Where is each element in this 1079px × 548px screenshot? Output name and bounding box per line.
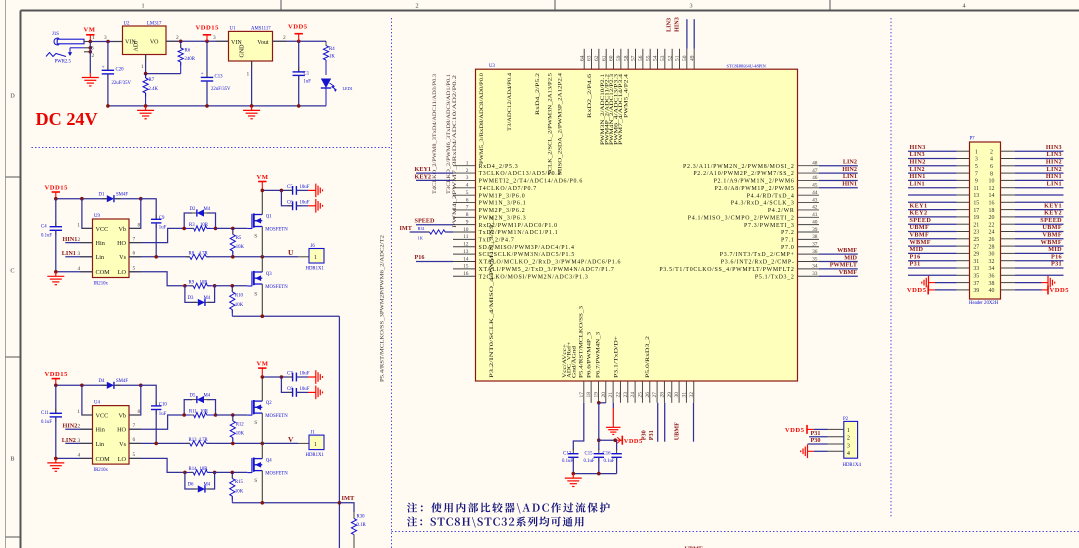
svg-text:40: 40	[812, 219, 818, 225]
MCU top pins 64-49	[579, 49, 695, 69]
net label P31	[648, 430, 655, 440]
svg-text:10uF: 10uF	[300, 200, 310, 205]
power flag VM driver U4	[257, 361, 269, 377]
svg-text:HIN1: HIN1	[842, 181, 857, 188]
wire UBMF pin 32	[693, 403, 695, 442]
svg-text:P16: P16	[910, 253, 921, 260]
svg-text:WBMF: WBMF	[1041, 239, 1062, 246]
wire source Q4 to rail	[261, 471, 263, 503]
svg-text:P2: P2	[843, 417, 849, 422]
svg-text:R13: R13	[189, 438, 198, 443]
svg-text:51: 51	[675, 55, 681, 61]
svg-text:61: 61	[601, 55, 607, 61]
net label P30	[640, 430, 647, 440]
svg-text:C1: C1	[304, 72, 310, 77]
diode D6 M4	[185, 472, 215, 492]
svg-text:P3.6/INT2/RxD_2/CMP-: P3.6/INT2/RxD_2/CMP-	[721, 260, 795, 266]
svg-text:WBMF: WBMF	[837, 247, 857, 254]
svg-text:TxD_2/P4.7: TxD_2/P4.7	[479, 238, 515, 244]
power flag VDD5 P2 pin 1	[785, 425, 828, 434]
wire COM pin 4 U4	[54, 453, 93, 461]
resistor R11 10R	[182, 410, 217, 418]
capacitor C7 10uF	[261, 372, 317, 382]
svg-text:T4CLKO_2/PWM8_3TxD4/ADC11/AD3/: T4CLKO_2/PWM8_3TxD4/ADC11/AD3/P0.3	[432, 74, 438, 194]
diode D5 M4	[184, 393, 215, 415]
svg-text:27: 27	[973, 244, 979, 250]
svg-text:R7: R7	[149, 78, 155, 83]
wire Vb pin 8 U4	[129, 385, 141, 415]
svg-text:Q2: Q2	[266, 401, 272, 406]
svg-text:GND: GND	[240, 44, 246, 58]
MCU left pins 1-16	[453, 161, 621, 281]
svg-text:26: 26	[989, 237, 995, 243]
svg-text:PWMFLT: PWMFLT	[830, 262, 858, 269]
svg-text:10R: 10R	[200, 223, 209, 228]
svg-text:D3: D3	[188, 296, 194, 301]
MCU bottom pins 17-32	[579, 381, 695, 403]
P7 row pins 7-8 net LIN2	[908, 166, 1064, 178]
svg-text:LIN2: LIN2	[910, 166, 926, 173]
svg-text:J6: J6	[311, 244, 316, 249]
svg-text:HIN2: HIN2	[1046, 159, 1062, 166]
resistor R30 0.1R	[351, 512, 366, 548]
svg-text:1uF: 1uF	[159, 226, 167, 231]
svg-text:Vs: Vs	[119, 441, 126, 448]
svg-text:T3/ADC12/AD4/P0.4: T3/ADC12/AD4/P0.4	[507, 73, 513, 131]
svg-text:U2: U2	[124, 22, 130, 27]
svg-text:C15: C15	[585, 451, 594, 456]
svg-text:P3.7/INT3/TxD_2/CMP+: P3.7/INT3/TxD_2/CMP+	[720, 252, 795, 258]
wire source Q3 to rail	[261, 284, 263, 316]
svg-text:47: 47	[812, 168, 818, 174]
power flag VM driver U9	[257, 174, 269, 190]
svg-text:21: 21	[608, 392, 614, 398]
svg-text:10uF: 10uF	[300, 372, 310, 377]
svg-text:39: 39	[812, 227, 818, 233]
P7 row pins 35-36	[908, 274, 1064, 280]
svg-text:20: 20	[601, 392, 607, 398]
net label U phase output	[288, 248, 294, 257]
regulator U2 LM317	[123, 22, 167, 55]
net label IMT shunt node	[342, 495, 356, 502]
svg-text:P5.4/RST/MCLKO/SS_3PWM2P/PWM6_: P5.4/RST/MCLKO/SS_3PWM2P/PWM6_2/ADC2/T2	[380, 235, 386, 382]
svg-text:MID: MID	[1048, 246, 1062, 253]
connector P7 Header 20X2H	[969, 137, 1001, 306]
P7 row pins 1-2 net HIN3	[908, 144, 1064, 156]
net label P16 pin 14	[415, 254, 454, 262]
svg-text:VBMF: VBMF	[910, 232, 930, 239]
svg-text:12: 12	[989, 186, 995, 192]
svg-text:AMS1117: AMS1117	[251, 27, 271, 32]
svg-text:RxD2_2/P4.6: RxD2_2/P4.6	[587, 74, 593, 118]
svg-text:STC8H8K64U-48PIN: STC8H8K64U-48PIN	[727, 63, 767, 68]
svg-text:49: 49	[689, 55, 695, 61]
LED1	[321, 79, 353, 106]
wire shunt bus vertical	[338, 316, 342, 548]
svg-text:6: 6	[466, 197, 469, 203]
resistor R6 240R	[178, 41, 196, 73]
svg-text:HIN2: HIN2	[842, 166, 857, 173]
wire COM pin 4 U9	[54, 266, 93, 274]
svg-text:28: 28	[989, 244, 995, 250]
power flag VDD15 driver U4	[45, 371, 69, 385]
svg-text:HDR1X4: HDR1X4	[843, 463, 862, 468]
svg-text:Q3: Q3	[266, 272, 272, 277]
svg-text:7: 7	[975, 171, 978, 177]
wire P31 pin 28	[664, 403, 666, 442]
MCU right pins 48-33	[659, 161, 819, 281]
svg-text:HDR1X1: HDR1X1	[306, 453, 325, 458]
svg-text:PWM2P_3/P6.2: PWM2P_3/P6.2	[479, 208, 526, 214]
resistor R15 10K	[230, 472, 244, 502]
svg-text:VDD5: VDD5	[1050, 287, 1070, 294]
transistor Q4 MOSFETN low side	[247, 458, 288, 485]
svg-text:42: 42	[812, 205, 818, 211]
net label HIN2 MCU right	[819, 166, 858, 173]
MCU rotated pin names top interior	[479, 73, 630, 378]
svg-text:HO: HO	[117, 240, 126, 247]
svg-text:6: 6	[133, 437, 136, 443]
svg-text:LIN1: LIN1	[843, 173, 857, 180]
P7 row pins 17-18 net KEY1	[908, 202, 1064, 214]
svg-text:SM4F: SM4F	[116, 193, 128, 198]
svg-text:2: 2	[92, 53, 95, 59]
ground decoupling rail	[565, 474, 582, 487]
svg-text:64: 64	[579, 55, 585, 61]
net label V phase output	[288, 435, 294, 444]
svg-text:12: 12	[463, 242, 469, 248]
svg-text:J1S: J1S	[52, 32, 59, 37]
power flag VM	[84, 27, 96, 42]
svg-text:C20: C20	[116, 68, 125, 73]
svg-text:KEY1: KEY1	[415, 166, 432, 173]
svg-text:DC 24V: DC 24V	[36, 109, 98, 129]
wire VDD5 node MCU	[597, 438, 617, 442]
ground jack	[82, 73, 99, 86]
svg-text:39: 39	[973, 288, 979, 294]
svg-text:R11: R11	[189, 410, 197, 415]
svg-text:PWM1P_3/P6.0: PWM1P_3/P6.0	[479, 193, 526, 199]
svg-text:9: 9	[975, 179, 978, 185]
svg-text:XTALI/PWM5_2/TxD_3/PWM4N/ADC7/: XTALI/PWM5_2/TxD_3/PWM4N/ADC7/P1.7	[479, 267, 615, 273]
gate driver U9 IR210x	[93, 219, 130, 278]
svg-text:U4: U4	[94, 401, 100, 406]
svg-text:LIN1: LIN1	[62, 250, 76, 257]
capacitor C11 0.1uF	[41, 385, 62, 458]
svg-text:PWM5_3/RxD8/ADC8/AD0/P0.0: PWM5_3/RxD8/ADC8/AD0/P0.0	[479, 73, 485, 164]
svg-text:8: 8	[466, 212, 469, 218]
svg-text:10R: 10R	[200, 410, 209, 415]
wire Vs pin 6 U9	[129, 251, 190, 259]
svg-text:7: 7	[133, 236, 136, 242]
svg-text:VDD15: VDD15	[45, 371, 69, 378]
svg-text:IMT: IMT	[342, 495, 356, 502]
svg-text:0.1uF: 0.1uF	[584, 459, 595, 464]
svg-text:1: 1	[975, 149, 978, 155]
svg-text:48: 48	[812, 161, 818, 167]
svg-text:P7.1: P7.1	[781, 238, 794, 244]
resistor R5 10K	[230, 228, 244, 256]
rotated net name T3CLKO column	[446, 74, 458, 228]
svg-text:3: 3	[975, 157, 978, 163]
wire source Q2 to phase	[261, 413, 263, 443]
svg-text:R31: R31	[418, 226, 425, 231]
svg-text:36: 36	[989, 274, 995, 280]
svg-text:R12: R12	[236, 423, 245, 428]
svg-text:13: 13	[463, 249, 469, 255]
wire U1 Vout VDD5 node	[273, 35, 327, 43]
P7 row pins 3-4 net LIN3	[908, 151, 1064, 163]
svg-text:HIN2: HIN2	[910, 159, 926, 166]
capacitor C6 10uF	[281, 190, 316, 210]
ground C5	[316, 184, 323, 198]
P7 row pins 13-14	[908, 193, 1064, 199]
net label P30 P2 pin 3	[808, 437, 828, 444]
capacitor C13 22uF/35V	[201, 41, 231, 106]
svg-text:C8: C8	[287, 387, 293, 392]
svg-text:4: 4	[466, 183, 469, 189]
capacitor C5 10uF	[261, 185, 317, 195]
net label KEY2 pin 2	[415, 173, 454, 180]
svg-text:VBMF: VBMF	[1042, 232, 1062, 239]
svg-text:63: 63	[587, 55, 593, 61]
svg-text:PWM1N_3/P6.1: PWM1N_3/P6.1	[479, 201, 527, 207]
svg-text:R30: R30	[357, 515, 366, 520]
svg-text:15: 15	[463, 264, 469, 270]
net label LIN1 MCU right	[819, 173, 858, 180]
svg-text:P4.2/WR: P4.2/WR	[768, 208, 795, 214]
wire HIN3 top pin 49	[693, 19, 695, 49]
resistor R14 10R	[183, 467, 216, 475]
gate driver U4 IR210x	[93, 406, 130, 465]
svg-text:38: 38	[812, 234, 818, 240]
svg-text:17: 17	[973, 208, 979, 214]
rotated net name P5.4/RST column	[380, 235, 386, 382]
svg-text:P6.6/PWM4P_3: P6.6/PWM4P_3	[587, 332, 593, 378]
svg-text:LM317: LM317	[147, 22, 162, 27]
svg-text:Q4: Q4	[266, 459, 272, 464]
svg-text:10R: 10R	[200, 467, 209, 472]
connector J1S power jack PWR2.5	[46, 32, 95, 65]
rotated net name T4CLKO column	[432, 74, 438, 194]
svg-text:S: S	[254, 234, 257, 240]
svg-text:8: 8	[138, 409, 141, 415]
svg-text:20: 20	[989, 215, 995, 221]
wire U1 GND	[247, 61, 252, 106]
svg-text:25: 25	[637, 392, 643, 398]
svg-text:C16: C16	[603, 451, 612, 456]
svg-text:VCC: VCC	[96, 412, 109, 419]
svg-text:4.7R: 4.7R	[199, 251, 209, 256]
svg-text:LIN2: LIN2	[1047, 166, 1063, 173]
svg-text:35: 35	[973, 274, 979, 280]
svg-text:HIN3: HIN3	[910, 144, 926, 151]
ground C8	[316, 386, 323, 400]
svg-text:15: 15	[973, 201, 979, 207]
svg-text:30: 30	[989, 252, 995, 258]
svg-text:COM: COM	[96, 456, 111, 463]
svg-text:R8: R8	[189, 251, 195, 256]
svg-text:33: 33	[973, 266, 979, 272]
net label WBMF MCU right	[819, 247, 858, 254]
svg-text:43: 43	[812, 197, 818, 203]
svg-text:59: 59	[616, 55, 622, 61]
svg-text:P5.4/RST/MCLKO/SS_3: P5.4/RST/MCLKO/SS_3	[579, 306, 585, 378]
svg-text:P5.0/RxD3_2: P5.0/RxD3_2	[645, 336, 651, 378]
transistor Q1 MOSFETN high side	[247, 213, 288, 239]
svg-text:32: 32	[989, 259, 995, 265]
svg-text:24: 24	[630, 392, 636, 398]
capacitor C16 0.1uF	[603, 440, 622, 473]
svg-text:MID: MID	[844, 254, 857, 261]
capacitor C1 1uF	[293, 41, 312, 106]
wire gate high U4	[216, 413, 248, 417]
svg-text:9: 9	[466, 219, 469, 225]
svg-text:7: 7	[133, 423, 136, 429]
wire phase node V	[206, 442, 298, 446]
svg-text:2: 2	[415, 3, 418, 10]
ground COM U9	[47, 272, 64, 285]
wire VM to drain Q2	[261, 377, 263, 401]
svg-text:2: 2	[283, 35, 286, 41]
svg-text:56: 56	[638, 55, 644, 61]
net label MID MCU right	[819, 254, 858, 261]
svg-text:4.7R: 4.7R	[199, 438, 209, 443]
svg-text:3: 3	[213, 35, 216, 41]
svg-text:31: 31	[973, 259, 979, 265]
net label UBMF pin 32	[674, 422, 681, 440]
svg-text:1: 1	[466, 161, 469, 167]
svg-text:VDD15: VDD15	[196, 25, 220, 32]
wire HO pin 7 U9	[129, 228, 184, 242]
wire U2 VO to U1	[166, 35, 229, 43]
svg-text:19: 19	[973, 215, 979, 221]
junction jack pins	[89, 42, 93, 74]
svg-text:5: 5	[133, 266, 136, 272]
svg-text:SPEED: SPEED	[1040, 217, 1062, 224]
svg-text:+: +	[201, 71, 204, 77]
svg-text:T2CLKO/MOSI/PWM2N/ADC3/P1.3: T2CLKO/MOSI/PWM2N/ADC3/P1.3	[479, 274, 589, 280]
svg-text:VBMF: VBMF	[839, 269, 857, 276]
svg-text:31: 31	[681, 392, 687, 398]
svg-text:4: 4	[990, 157, 993, 163]
svg-text:25: 25	[973, 237, 979, 243]
svg-text:R3: R3	[189, 223, 195, 228]
P7 row pins 39-40	[907, 285, 1069, 294]
svg-text:P3.1/TxD/D+: P3.1/TxD/D+	[613, 336, 619, 378]
svg-text:34: 34	[812, 264, 818, 270]
svg-text:24: 24	[989, 230, 995, 236]
svg-text:PWM5_4/P2.4: PWM5_4/P2.4	[624, 74, 630, 118]
svg-text:52: 52	[667, 55, 673, 61]
net label LIN2 pin 3 U4	[62, 437, 93, 444]
svg-text:P2.0/A8/PWM1P_2/PWM5: P2.0/A8/PWM1P_2/PWM5	[715, 186, 795, 192]
svg-text:54: 54	[653, 55, 659, 61]
svg-text:XTALO/MCLKO_2/RxD_3/PWM4P/ADC6: XTALO/MCLKO_2/RxD_3/PWM4P/ADC6/P1.6	[479, 260, 622, 266]
svg-text:HIN2: HIN2	[63, 423, 78, 430]
svg-text:240R: 240R	[185, 57, 196, 62]
svg-text:26: 26	[645, 392, 651, 398]
svg-text:1: 1	[77, 222, 80, 228]
resistor R13 4.7R	[186, 438, 210, 446]
capacitor C15 0.1uF	[584, 449, 605, 474]
net label HIN3	[674, 17, 681, 32]
svg-text:D4: D4	[99, 379, 105, 384]
svg-text:55: 55	[645, 55, 651, 61]
wire LO pin 5 U4	[129, 452, 185, 472]
svg-text:P16: P16	[1051, 253, 1062, 260]
svg-text:LIN3: LIN3	[1047, 151, 1063, 158]
wire drain Q3	[261, 257, 263, 272]
net label VBMF MCU right	[819, 269, 858, 276]
text DC 24V	[36, 109, 98, 129]
svg-text:MID: MID	[910, 246, 924, 253]
net label HIN2 pin 2 U4	[63, 423, 93, 430]
svg-text:22uF/35V: 22uF/35V	[211, 87, 231, 92]
svg-text:1: 1	[77, 409, 80, 415]
svg-text:60: 60	[609, 55, 615, 61]
svg-text:B: B	[10, 456, 14, 463]
MCU rotated pin names bottom interior	[562, 306, 651, 378]
power flag VDD15 driver U9	[45, 185, 69, 199]
wire VCC rail driver U9	[54, 197, 143, 201]
svg-text:HIN3: HIN3	[1046, 144, 1062, 151]
svg-text:3: 3	[847, 443, 850, 449]
wire pins 19 20 to VDD5	[597, 401, 606, 450]
svg-text:Lin: Lin	[96, 441, 105, 448]
svg-text:MOSFETN: MOSFETN	[265, 414, 288, 419]
svg-text:4: 4	[78, 453, 81, 459]
svg-text:5: 5	[466, 190, 469, 196]
svg-text:KEY2: KEY2	[1044, 210, 1062, 217]
svg-text:R4: R4	[329, 47, 335, 52]
wire VCC pin 1 U4	[77, 385, 92, 415]
svg-text:VCC: VCC	[96, 226, 109, 233]
svg-text:53: 53	[660, 55, 666, 61]
svg-text:30: 30	[674, 392, 680, 398]
svg-text:P7.2: P7.2	[781, 230, 794, 236]
ground pin 21	[606, 424, 620, 435]
wire low rail driver U4	[232, 501, 339, 505]
svg-text:D1: D1	[99, 193, 105, 198]
svg-text:C11: C11	[41, 411, 49, 416]
svg-text:SPEED: SPEED	[415, 217, 435, 224]
svg-text:HIN3: HIN3	[674, 17, 681, 32]
diode D4 SM4F	[99, 379, 129, 389]
net label LIN3	[666, 18, 673, 32]
svg-text:VO: VO	[150, 40, 159, 46]
svg-text:46: 46	[812, 175, 818, 181]
svg-text:57: 57	[631, 55, 637, 61]
svg-text:2.4K: 2.4K	[149, 87, 159, 92]
svg-text:Lin: Lin	[96, 254, 105, 261]
svg-text:Vb: Vb	[118, 226, 126, 233]
ground COM U4	[47, 458, 64, 471]
svg-text:Gnd/AGnd: Gnd/AGnd	[572, 346, 578, 378]
svg-text:MOSFETN: MOSFETN	[265, 228, 288, 233]
svg-text:KEY1: KEY1	[1044, 202, 1062, 209]
svg-text:10uF: 10uF	[300, 185, 310, 190]
svg-text:LIN1: LIN1	[1047, 180, 1063, 187]
svg-text:C10: C10	[159, 403, 168, 408]
resistor R8 4.7R	[186, 251, 210, 259]
P7 row pins 29-30 net MID	[908, 246, 1064, 258]
wire jack to U2	[89, 35, 123, 43]
svg-text:23: 23	[973, 230, 979, 236]
svg-text:18: 18	[586, 392, 592, 398]
P7 row pins 9-10 net HIN1	[908, 173, 1064, 185]
svg-text:1uF: 1uF	[304, 80, 312, 85]
